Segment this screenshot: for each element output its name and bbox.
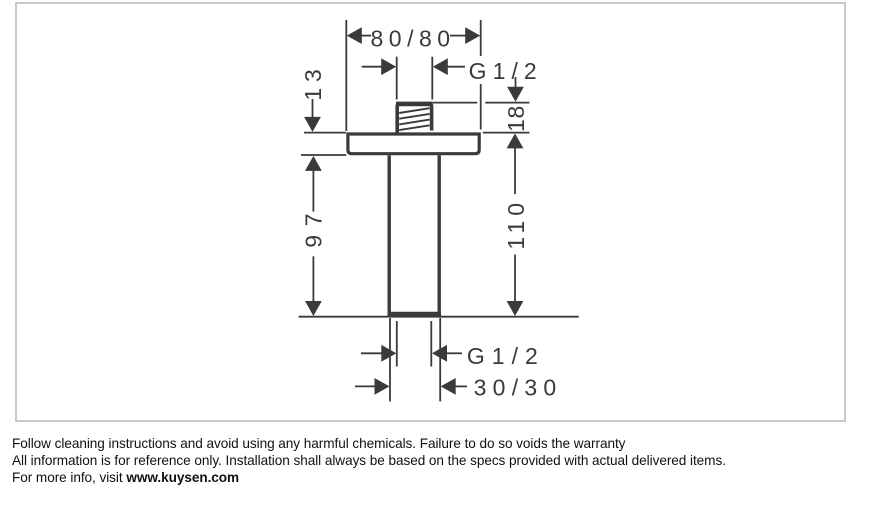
dim line 18 stem [515,77,517,88]
arrow 80/80 left [347,27,362,44]
svg-text:G1/2: G1/2 [467,343,538,369]
arrow G1/2 top left-pointing [433,58,448,75]
stub thread hatch line 1 [399,108,429,113]
dim line 30/30 left-arrow tail [455,385,467,387]
arrow 30/30 right-pointing [375,378,390,395]
reference line flange-top level left [304,132,346,134]
arrow 18 down [507,87,524,102]
footer line 2 [12,453,726,468]
stub thread hatch line 4 [399,125,429,130]
svg-text:30/30: 30/30 [474,374,557,400]
extension line 80/80 left [345,20,347,131]
arrow 97 down [305,301,322,316]
stub top thick edge [396,102,433,107]
flange body [348,134,479,154]
dim line 110 lower [514,255,516,303]
arrow 13 down [304,117,321,132]
dim line G1/2 bottom right-arrow tail [361,352,382,354]
extension line 80/80 right lower [480,84,482,130]
dim line G1/2 top right-arrow tail [362,66,382,68]
extension line below outlet outer-left [389,318,391,401]
extension line below outlet inner-left [396,321,398,367]
stub thread hatch line 3 [399,120,429,125]
dim line G1/2 bottom left-arrow tail [447,352,463,354]
extension line below outlet outer-right [439,318,441,401]
reference line stub-top level [433,102,477,104]
reference line flange-top level right [483,132,530,134]
arrow G1/2 top right-pointing [381,58,396,75]
footer line 1 [12,436,625,451]
footer line 3 [12,470,239,485]
pipe left wall [388,155,391,314]
dim line 13 [312,99,314,119]
arrow G1/2 bottom left-pointing [432,345,447,362]
svg-text:18: 18 [503,106,529,132]
arrow 110 down [507,301,524,316]
dim line 97 upper [312,170,314,212]
svg-text:97: 97 [301,213,327,247]
extension line 80/80 right upper [480,20,482,56]
extension line stub left [396,57,398,100]
extension line below outlet inner-right [430,321,432,367]
arrow 97 up [305,156,322,171]
svg-text:80/80: 80/80 [371,25,451,51]
dim line 110 upper [514,148,516,195]
dim line G1/2 top left-arrow tail [447,66,465,68]
extension line stub right [431,57,433,100]
arrow 30/30 left-pointing [441,378,456,395]
pipe bottom thick edge [388,312,442,316]
svg-text:110: 110 [503,203,529,250]
stub thread hatch line 2 [399,114,429,119]
threaded stub outline [397,104,431,134]
arrow G1/2 bottom right-pointing [381,345,396,362]
dim line 80/80 right tail [450,35,466,37]
arrow 80/80 right [465,27,480,44]
reference line pipe-bottom [299,316,579,318]
dim line 30/30 right-arrow tail [355,385,375,387]
pipe right wall [438,155,441,314]
outer border frame [15,2,846,422]
svg-text:G1/2: G1/2 [469,58,537,84]
arrow 18 up (110 top) [507,133,524,148]
dim line 97 lower [312,256,314,302]
dim line 80/80 left tail [362,35,372,37]
svg-text:13: 13 [300,69,326,100]
reference line flange-bottom level left [301,154,346,156]
